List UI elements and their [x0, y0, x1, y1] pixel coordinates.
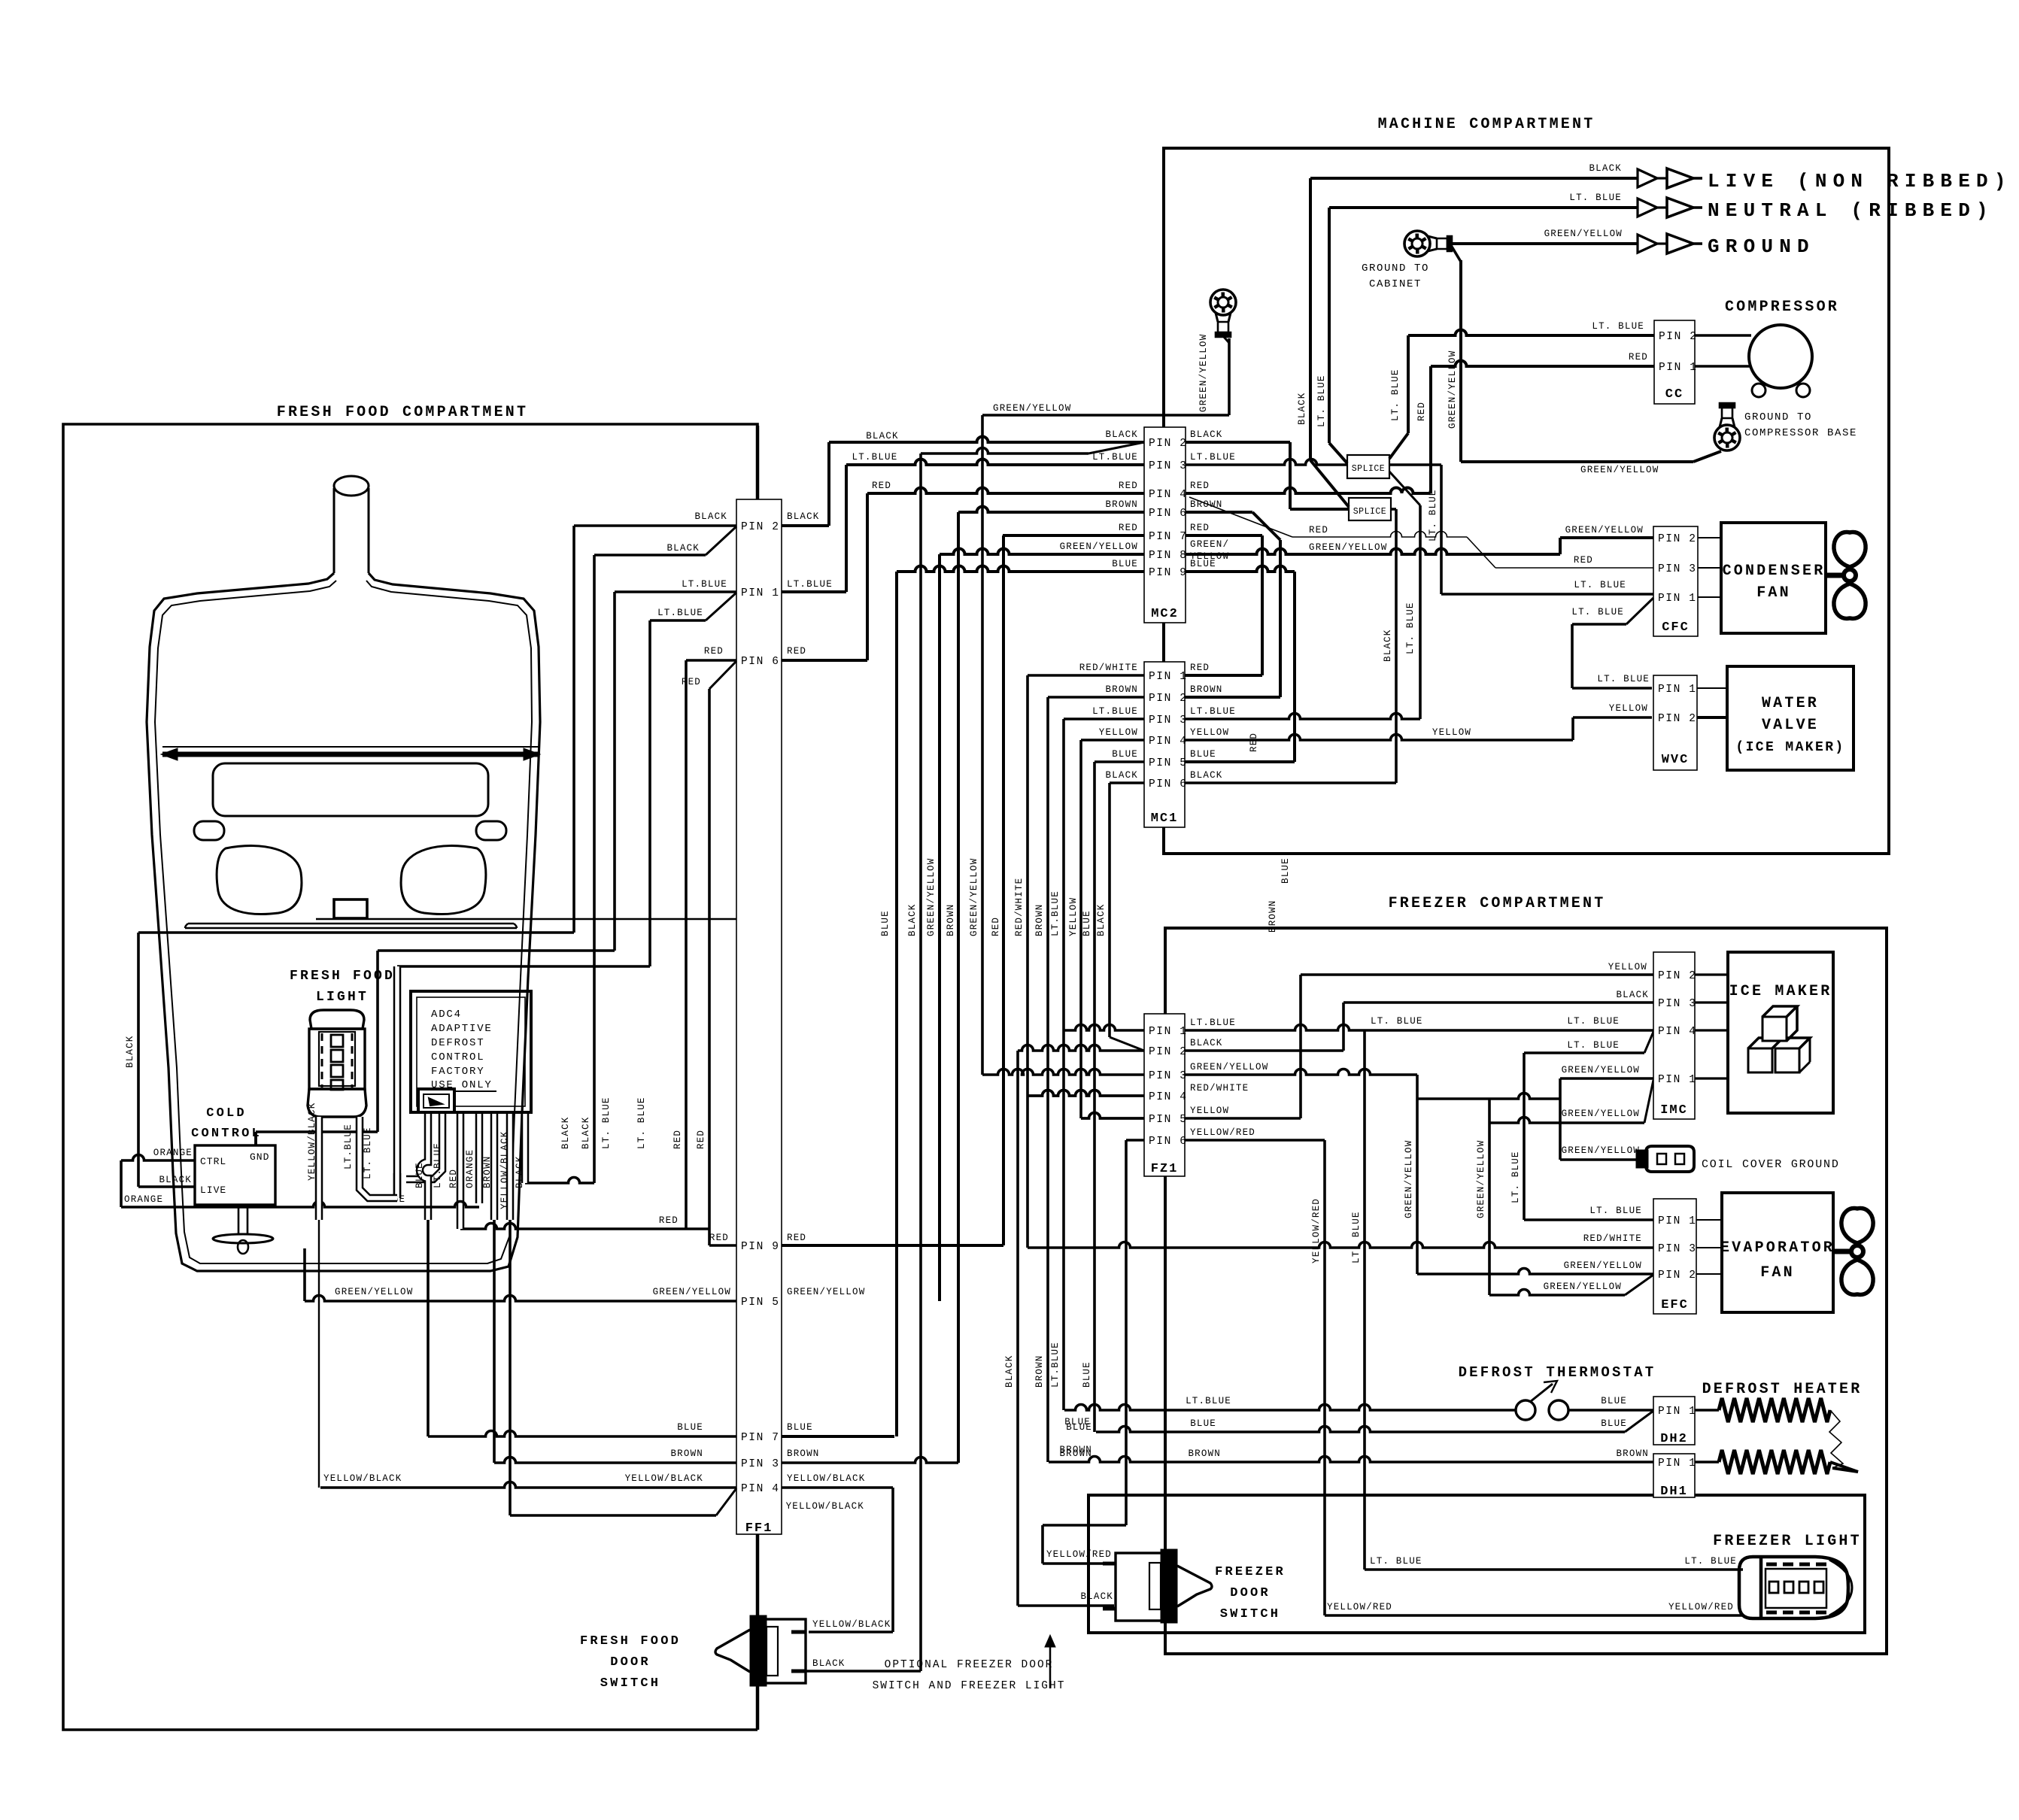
NEUTRAL arrows — [1638, 199, 1657, 217]
wire FF1 pin7 blue left — [428, 1431, 736, 1436]
ice cubes icon — [1748, 1048, 1772, 1072]
defrost heater element lower — [1695, 1461, 1719, 1463]
svg-text:PIN 8: PIN 8 — [1149, 550, 1188, 562]
svg-text:PIN 4: PIN 4 — [1149, 736, 1188, 748]
svg-text:PIN 1: PIN 1 — [1658, 1215, 1697, 1227]
svg-text:GREEN/YELLOW: GREEN/YELLOW — [926, 858, 937, 936]
svg-text:BLUE: BLUE — [1601, 1418, 1627, 1429]
wire FF1 pin4 yellow/black diag branch — [716, 1488, 736, 1515]
console left oval hole — [194, 821, 224, 840]
svg-text:YELLOW/BLACK: YELLOW/BLACK — [625, 1473, 703, 1484]
svg-text:RED: RED — [1629, 352, 1648, 362]
wire CC pin1 to compressor — [1695, 365, 1750, 367]
svg-text:RED: RED — [1416, 402, 1427, 421]
svg-text:BLUE: BLUE — [1112, 749, 1138, 760]
wire IMC pin2 stub — [1695, 973, 1728, 975]
svg-text:BLACK: BLACK — [515, 1155, 525, 1188]
wire MC2 pin3 lt.blue to splice1 — [1186, 460, 1347, 466]
wire MC2 pin8 green/yellow to CFC pin2 — [1186, 549, 1560, 555]
svg-text:GREEN/YELLOW: GREEN/YELLOW — [653, 1287, 731, 1297]
svg-text:LT. BLUE: LT. BLUE — [1574, 580, 1626, 590]
svg-text:LT.BLUE: LT.BLUE — [1186, 1396, 1231, 1406]
svg-text:YELLOW: YELLOW — [1190, 1106, 1229, 1116]
svg-text:RED: RED — [1249, 733, 1259, 752]
svg-text:ORANGE: ORANGE — [153, 1148, 193, 1158]
svg-text:RED: RED — [709, 1233, 729, 1243]
connector CC — [1654, 320, 1695, 404]
splice box 2 — [1349, 498, 1391, 520]
svg-text:BROWN: BROWN — [1034, 903, 1045, 936]
condenser fan box — [1721, 523, 1826, 633]
svg-text:COMPRESSOR: COMPRESSOR — [1725, 299, 1839, 316]
wire MC1 pin6 black to FZ1 pin2 — [1110, 781, 1144, 784]
machine ground ring terminal — [1210, 290, 1236, 315]
svg-text:BROWN: BROWN — [1190, 684, 1223, 695]
svg-text:PIN 2: PIN 2 — [1658, 713, 1697, 725]
wire yellow FZ1 pin5 to IMC pin2 — [1185, 1117, 1301, 1120]
wire MC1 pin3 lt.blue to FZ1 pin1 and thermostat — [1064, 717, 1144, 720]
svg-text:RED: RED — [448, 1169, 459, 1188]
ground-to-compressor-base ring terminal — [1714, 425, 1740, 450]
svg-text:MACHINE COMPARTMENT: MACHINE COMPARTMENT — [1378, 116, 1595, 133]
wire machine box edge MC2-MC1 — [1162, 623, 1165, 662]
wire FZ1 pin2 black to freezer door switch — [1018, 1045, 1144, 1051]
svg-text:FRESH FOOD COMPARTMENT: FRESH FOOD COMPARTMENT — [277, 404, 528, 421]
svg-text:DEFROST HEATER: DEFROST HEATER — [1702, 1381, 1863, 1398]
svg-text:LT.BLUE: LT.BLUE — [657, 608, 703, 618]
svg-text:LT.BLUE: LT.BLUE — [433, 1142, 443, 1188]
svg-text:BLACK: BLACK — [1105, 429, 1138, 440]
svg-text:RED: RED — [1119, 481, 1138, 491]
wire black second to MC2 pin2 — [919, 453, 922, 1671]
wire FF1 pin2 black right to MC2 — [782, 524, 829, 527]
connector IMC — [1653, 952, 1695, 1119]
svg-text:RED: RED — [1119, 523, 1138, 533]
svg-text:LT.BLUE: LT.BLUE — [1092, 452, 1138, 463]
svg-text:LT. BLUE: LT. BLUE — [1405, 602, 1416, 654]
svg-text:FF1: FF1 — [745, 1521, 773, 1536]
svg-text:LT. BLUE: LT. BLUE — [1351, 1211, 1362, 1263]
wire cold control gnd up — [254, 1132, 257, 1145]
wire FF1 pin5 green/yellow left — [305, 1296, 736, 1302]
svg-text:NEUTRAL (RIBBED): NEUTRAL (RIBBED) — [1708, 199, 1994, 222]
wire green/yellow top run — [982, 414, 1229, 417]
svg-text:LT. BLUE: LT. BLUE — [1390, 369, 1401, 421]
svg-text:LT.BLUE: LT.BLUE — [1190, 1018, 1236, 1028]
condenser fan icon — [1826, 573, 1844, 578]
svg-text:PIN 7: PIN 7 — [741, 1432, 780, 1444]
svg-text:LT.BLUE: LT.BLUE — [787, 579, 833, 590]
svg-text:RED: RED — [682, 677, 701, 687]
svg-text:ICE MAKER: ICE MAKER — [1729, 983, 1832, 1000]
svg-text:YELLOW: YELLOW — [1068, 897, 1079, 936]
connector EFC — [1653, 1199, 1696, 1314]
connector FZ1 — [1144, 1014, 1185, 1176]
svg-text:RED/WHITE: RED/WHITE — [1190, 1083, 1249, 1094]
svg-text:YELLOW: YELLOW — [1190, 727, 1229, 738]
svg-text:CONTROL: CONTROL — [191, 1127, 262, 1141]
wire EFC pin3 stub — [1696, 1247, 1722, 1248]
LIVE arrows — [1638, 169, 1657, 187]
defrost thermostat contacts — [1516, 1400, 1535, 1420]
svg-text:(ICE MAKER): (ICE MAKER) — [1735, 740, 1844, 755]
svg-text:LT. BLUE: LT. BLUE — [1567, 1016, 1620, 1027]
optional box arrow — [1049, 1640, 1052, 1688]
svg-text:GREEN/YELLOW: GREEN/YELLOW — [1544, 1282, 1622, 1292]
svg-text:BLUE: BLUE — [677, 1422, 703, 1433]
wire FF1 pin1 lt.blue second — [650, 619, 706, 622]
svg-text:DOOR: DOOR — [610, 1655, 651, 1670]
wire MC2 pin9 blue left — [897, 566, 1144, 572]
svg-text:BROWN: BROWN — [1188, 1448, 1221, 1459]
svg-text:CTRL: CTRL — [200, 1156, 226, 1167]
console stem ellipse — [334, 476, 369, 496]
svg-text:RED: RED — [991, 917, 1001, 936]
wire orange loop — [121, 1155, 195, 1161]
svg-text:GREEN/YELLOW: GREEN/YELLOW — [1580, 465, 1659, 475]
svg-text:GREEN/YELLOW: GREEN/YELLOW — [787, 1287, 865, 1297]
svg-text:BROWN: BROWN — [1059, 1448, 1092, 1459]
svg-text:RED: RED — [1574, 555, 1593, 566]
svg-text:PIN 6: PIN 6 — [1149, 778, 1188, 790]
evaporator fan icon — [1833, 1249, 1851, 1254]
svg-text:PIN 7: PIN 7 — [1149, 531, 1188, 543]
wire green/yellow to IMC pin1 — [1559, 1078, 1562, 1099]
svg-text:FZ1: FZ1 — [1151, 1162, 1179, 1176]
freezer light bulb — [1739, 1557, 1848, 1618]
wire MC2 pin8 green/yellow left — [940, 549, 1144, 555]
svg-text:LT.BLUE: LT.BLUE — [343, 1124, 354, 1169]
svg-text:RED: RED — [787, 1233, 806, 1243]
svg-text:BLACK: BLACK — [812, 1658, 846, 1669]
svg-text:BLACK: BLACK — [1190, 770, 1223, 781]
svg-text:BLACK: BLACK — [560, 1116, 571, 1149]
svg-text:GROUND TO: GROUND TO — [1362, 262, 1429, 275]
svg-text:BLUE: BLUE — [1190, 559, 1216, 569]
ground-to-cabinet ring terminal — [1404, 231, 1430, 256]
wire MC2 pin2 black to splice2 — [1186, 441, 1290, 444]
svg-text:CONTROL: CONTROL — [431, 1051, 484, 1063]
wire FF1 pin1 lt.blue — [615, 590, 736, 593]
wire MC2 pin6 brown to MC1 pin2 — [1186, 511, 1252, 514]
svg-text:LT. BLUE: LT. BLUE — [1569, 193, 1622, 203]
fresh food door switch — [759, 1619, 806, 1683]
svg-text:FREEZER: FREEZER — [1215, 1565, 1286, 1579]
wire CC pin2 to compressor — [1695, 334, 1751, 336]
svg-text:EVAPORATOR: EVAPORATOR — [1720, 1239, 1835, 1257]
defrost heater element upper — [1695, 1409, 1719, 1411]
svg-text:PIN 2: PIN 2 — [741, 521, 780, 533]
svg-text:PIN 1: PIN 1 — [741, 587, 780, 599]
svg-text:RED: RED — [704, 646, 724, 657]
svg-text:PIN 1: PIN 1 — [1658, 1406, 1697, 1418]
connector FF1 — [736, 499, 782, 1534]
svg-text:BLACK: BLACK — [1616, 990, 1649, 1000]
wire EFC pin2 stub — [1696, 1273, 1722, 1275]
svg-text:GREEN/: GREEN/ — [1190, 539, 1229, 550]
svg-text:CFC: CFC — [1662, 620, 1690, 635]
svg-text:GREEN/YELLOW: GREEN/YELLOW — [1198, 334, 1209, 412]
svg-text:YELLOW/BLACK: YELLOW/BLACK — [787, 1473, 865, 1484]
svg-text:BLACK: BLACK — [125, 1035, 135, 1068]
svg-text:BLACK: BLACK — [1589, 163, 1622, 174]
wire FF1 pin4 yellow/black right — [782, 1486, 893, 1489]
svg-text:YELLOW/RED: YELLOW/RED — [1327, 1602, 1392, 1612]
svg-text:GREEN/YELLOW: GREEN/YELLOW — [1476, 1140, 1486, 1218]
svg-text:PIN 2: PIN 2 — [1658, 533, 1697, 545]
wire door switch to box bottom — [756, 1683, 760, 1730]
svg-text:BROWN: BROWN — [1268, 899, 1278, 933]
svg-text:BLACK: BLACK — [1190, 1038, 1223, 1048]
wire MC1 pin5 blue to DH2 — [1095, 760, 1144, 763]
svg-text:RED/WHITE: RED/WHITE — [1079, 663, 1138, 673]
svg-text:PIN 9: PIN 9 — [741, 1241, 780, 1253]
svg-text:MC2: MC2 — [1151, 607, 1179, 621]
wire WVC pin1 stub — [1697, 687, 1727, 689]
svg-text:BLACK: BLACK — [787, 511, 820, 522]
wire lt.blue branch to freezer light — [1363, 1030, 1366, 1570]
wire FZ1 pin2 black to IMC pin3 — [1185, 1049, 1343, 1052]
svg-text:PIN 1: PIN 1 — [1658, 1074, 1697, 1086]
svg-text:LT. BLUE: LT. BLUE — [1597, 674, 1650, 684]
svg-text:SPLICE: SPLICE — [1353, 507, 1386, 517]
svg-text:BLUE: BLUE — [1190, 1418, 1216, 1429]
wire MC2 pin7 red left to FF1 pin9 — [1003, 534, 1144, 537]
svg-text:LT. BLUE: LT. BLUE — [1371, 1016, 1423, 1027]
svg-text:BLACK: BLACK — [1297, 392, 1307, 425]
wire MC1 pin3 right to splice1 lt.blue — [1185, 714, 1420, 719]
svg-text:PIN 1: PIN 1 — [1659, 362, 1698, 374]
svg-text:GREEN/YELLOW: GREEN/YELLOW — [1404, 1140, 1414, 1218]
fresh food light lamp — [310, 1010, 364, 1029]
wire thin red MC2 pin4 to CFC pin3 — [1189, 497, 1292, 537]
svg-text:PIN 3: PIN 3 — [741, 1458, 780, 1470]
wire MC1 pin4 yellow to WVC pin2 — [1185, 735, 1573, 740]
svg-text:YELLOW: YELLOW — [1432, 727, 1471, 738]
wire FF1 pin1 lt.blue right to MC2 pin3 — [782, 590, 846, 593]
wire WVC pin2 stub — [1697, 716, 1727, 719]
machine compartment box — [1164, 148, 1889, 854]
svg-text:LT. BLUE: LT. BLUE — [363, 1127, 373, 1179]
svg-text:BLACK: BLACK — [1096, 903, 1107, 936]
svg-text:LT. BLUE: LT. BLUE — [1510, 1151, 1521, 1203]
svg-text:RED/WHITE: RED/WHITE — [1014, 878, 1025, 936]
svg-text:RED: RED — [1309, 525, 1328, 535]
svg-text:RED: RED — [1190, 663, 1210, 673]
svg-text:LT.BLUE: LT.BLUE — [1092, 706, 1138, 717]
cold control box — [195, 1145, 275, 1205]
wire splice1 to CFC pin1 lt.blue — [1389, 463, 1441, 466]
svg-text:COLD: COLD — [206, 1106, 247, 1121]
svg-text:BLACK: BLACK — [1190, 429, 1223, 440]
wire MC1 pin2 brown to DH1 — [1048, 696, 1144, 699]
svg-text:BLACK: BLACK — [866, 431, 899, 441]
compressor circle — [1749, 325, 1812, 388]
svg-text:BROWN: BROWN — [1105, 499, 1138, 510]
svg-text:BLACK: BLACK — [581, 1116, 591, 1149]
console left kidney hole — [217, 846, 302, 915]
svg-text:PIN 1: PIN 1 — [1658, 684, 1697, 696]
svg-text:GREEN/YELLOW: GREEN/YELLOW — [1060, 541, 1138, 552]
wire FF1 pin3 brown right — [782, 1458, 958, 1463]
svg-text:GREEN/YELLOW: GREEN/YELLOW — [1562, 1145, 1640, 1156]
svg-text:PIN 3: PIN 3 — [1149, 460, 1188, 472]
wire freezer box edge above FZ1 — [1164, 928, 1167, 1014]
svg-text:CABINET: CABINET — [1369, 278, 1422, 290]
svg-text:PIN 9: PIN 9 — [1149, 567, 1188, 579]
svg-text:FACTORY: FACTORY — [431, 1066, 484, 1078]
svg-text:PIN 4: PIN 4 — [1149, 1091, 1188, 1103]
svg-text:LT. BLUE: LT. BLUE — [1592, 321, 1644, 332]
console inner outline — [155, 581, 532, 1263]
svg-text:BLUE: BLUE — [1066, 1422, 1092, 1433]
ADC4 service connector — [418, 1089, 454, 1112]
console right oval hole — [476, 821, 506, 840]
cold control shaft — [238, 1205, 247, 1234]
svg-text:LT. BLUE: LT. BLUE — [601, 1097, 612, 1149]
wire FZ1 pin3 green/yellow to EFC pin2 — [1185, 1069, 1417, 1075]
svg-text:GREEN/YELLOW: GREEN/YELLOW — [969, 858, 979, 936]
svg-text:DH1: DH1 — [1660, 1485, 1688, 1499]
svg-text:GREEN/YELLOW: GREEN/YELLOW — [1309, 542, 1387, 553]
svg-text:PIN 5: PIN 5 — [1149, 757, 1188, 769]
svg-text:GREEN/YELLOW: GREEN/YELLOW — [1565, 525, 1644, 535]
svg-text:RED: RED — [1190, 523, 1210, 533]
svg-text:LT.BLUE: LT.BLUE — [1050, 890, 1061, 936]
svg-text:ADAPTIVE: ADAPTIVE — [431, 1023, 493, 1035]
svg-text:OPTIONAL FREEZER DOOR: OPTIONAL FREEZER DOOR — [885, 1659, 1054, 1671]
svg-text:BLUE: BLUE — [414, 1162, 425, 1188]
optional freezer door switch box — [1088, 1495, 1865, 1633]
svg-text:BLACK: BLACK — [159, 1175, 192, 1185]
fresh food compartment box — [63, 424, 758, 1730]
svg-text:BLUE: BLUE — [1601, 1396, 1627, 1406]
wire FF1 pin6 red — [686, 659, 736, 662]
svg-text:COMPRESSOR BASE: COMPRESSOR BASE — [1744, 427, 1857, 439]
freezer compartment box — [1165, 928, 1887, 1654]
svg-text:PIN 3: PIN 3 — [1658, 563, 1697, 575]
svg-text:BLUE: BLUE — [1082, 1361, 1092, 1388]
wire FZ1 pin4 red/white — [1028, 1090, 1144, 1096]
svg-text:PIN 1: PIN 1 — [1658, 1458, 1697, 1470]
wire MC1 pin4 yellow to FZ1 pin5 — [1081, 739, 1144, 742]
svg-text:PIN 3: PIN 3 — [1149, 714, 1188, 726]
svg-text:LT. BLUE: LT. BLUE — [1316, 375, 1327, 427]
freezer door switch — [1116, 1553, 1162, 1621]
wire FF box edge into FF1 — [756, 426, 760, 499]
wire yellow/red FZ1 pin6 to freezer light — [1185, 1139, 1325, 1142]
svg-text:RED/WHITE: RED/WHITE — [1583, 1233, 1642, 1244]
svg-text:FREEZER COMPARTMENT: FREEZER COMPARTMENT — [1389, 895, 1606, 912]
svg-text:BROWN: BROWN — [946, 903, 956, 936]
svg-text:BLACK: BLACK — [1383, 629, 1393, 662]
wire FF1 pin7 blue right — [782, 1435, 894, 1438]
svg-text:LT. BLUE: LT. BLUE — [1589, 1206, 1642, 1216]
svg-text:BROWN: BROWN — [670, 1448, 703, 1459]
svg-text:PIN 6: PIN 6 — [1149, 1136, 1188, 1148]
svg-text:CC: CC — [1665, 387, 1684, 402]
svg-text:GREEN/YELLOW: GREEN/YELLOW — [1190, 1062, 1268, 1072]
wire CFC pin1 stub — [1698, 596, 1721, 598]
svg-text:BLUE: BLUE — [1082, 910, 1092, 936]
svg-text:LT. BLUE: LT. BLUE — [1567, 1040, 1620, 1051]
svg-text:YELLOW/RED: YELLOW/RED — [1046, 1549, 1112, 1560]
svg-text:GREEN/YELLOW: GREEN/YELLOW — [335, 1287, 413, 1297]
svg-text:BROWN: BROWN — [1034, 1354, 1045, 1388]
wire FF1 pin2 black — [574, 524, 736, 527]
svg-text:GROUND TO: GROUND TO — [1744, 411, 1812, 423]
svg-text:RED: RED — [787, 646, 806, 657]
svg-text:YELLOW: YELLOW — [1609, 703, 1648, 714]
wire MC2 pin7 red to MC1 pin1 — [1186, 534, 1262, 537]
connector DH2 — [1653, 1397, 1695, 1445]
svg-text:LT.BLUE: LT.BLUE — [1050, 1342, 1061, 1388]
svg-text:LIGHT: LIGHT — [316, 990, 369, 1005]
svg-text:YELLOW: YELLOW — [1099, 727, 1138, 738]
wire MC2 pin9 blue to MC1 pin5 — [1186, 566, 1295, 572]
wire FF1 pin3 brown left — [494, 1458, 736, 1463]
svg-text:WVC: WVC — [1662, 753, 1690, 767]
svg-text:PIN 2: PIN 2 — [1658, 1269, 1697, 1282]
wire FZ1 pin3 green/yellow from top — [982, 1069, 1144, 1075]
svg-text:FREEZER LIGHT: FREEZER LIGHT — [1713, 1533, 1862, 1550]
svg-text:BROWN: BROWN — [1616, 1448, 1649, 1459]
svg-text:DEFROST THERMOSTAT: DEFROST THERMOSTAT — [1459, 1364, 1656, 1381]
wire FF1 pin6 red right to MC2 pin4 — [782, 659, 867, 662]
wire FF1 pin6 red second — [709, 661, 736, 689]
svg-text:GREEN/YELLOW: GREEN/YELLOW — [1562, 1065, 1640, 1075]
defrost heater link zigzag — [1829, 1410, 1843, 1468]
wire FZ1 pin1 lt.blue branch — [1064, 1025, 1144, 1031]
wire lt.blue IMC pin4 second / EFC pin1 — [1524, 1051, 1644, 1054]
wire GROUND green/yellow — [1452, 242, 1638, 245]
ADC4 box — [411, 991, 531, 1112]
connector WVC — [1653, 675, 1697, 770]
ice maker box — [1728, 952, 1833, 1113]
svg-text:GREEN/YELLOW: GREEN/YELLOW — [1564, 1260, 1642, 1271]
wire FF1 pin4 yellow/black left — [320, 1482, 736, 1488]
wire IMC pin1 stub — [1695, 1077, 1728, 1079]
svg-text:MC1: MC1 — [1151, 811, 1179, 826]
connector DH1 — [1653, 1454, 1695, 1497]
wire MC1 pin6 black to splice2 — [1185, 781, 1396, 784]
console outer outline — [147, 573, 540, 1271]
svg-text:PIN 6: PIN 6 — [1149, 508, 1188, 520]
svg-text:YELLOW/RED: YELLOW/RED — [1311, 1198, 1322, 1263]
svg-text:GND: GND — [250, 1151, 269, 1163]
svg-text:LT. BLUE: LT. BLUE — [1571, 607, 1624, 617]
svg-text:LT. BLUE: LT. BLUE — [1684, 1556, 1737, 1567]
console center clip — [334, 899, 367, 918]
svg-text:BLUE: BLUE — [787, 1422, 813, 1433]
svg-text:YELLOW/RED: YELLOW/RED — [1668, 1602, 1734, 1612]
svg-text:BLUE: BLUE — [1190, 749, 1216, 760]
svg-text:LT. BLUE: LT. BLUE — [1370, 1556, 1422, 1567]
svg-text:SWITCH: SWITCH — [1220, 1607, 1280, 1621]
svg-text:ORANGE: ORANGE — [124, 1194, 163, 1205]
svg-text:DH2: DH2 — [1660, 1432, 1688, 1446]
svg-text:PIN 1: PIN 1 — [1149, 1026, 1188, 1038]
svg-text:PIN 4: PIN 4 — [741, 1483, 780, 1495]
wire FZ1 pin5 yellow — [1081, 1113, 1144, 1118]
svg-text:BROWN: BROWN — [787, 1448, 820, 1459]
svg-text:BLACK: BLACK — [666, 543, 700, 554]
console stem — [333, 488, 335, 573]
svg-text:SWITCH: SWITCH — [600, 1676, 660, 1691]
svg-text:LT.BLUE: LT.BLUE — [682, 579, 727, 590]
svg-text:YELLOW/BLACK: YELLOW/BLACK — [323, 1473, 402, 1484]
svg-text:BROWN: BROWN — [482, 1155, 493, 1188]
